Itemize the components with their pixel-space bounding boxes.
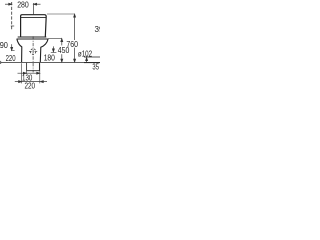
- dimension 280 left arrow: [5, 3, 12, 5]
- wall line cross tick: [11, 25, 14, 27]
- svg-text:180: 180: [44, 54, 56, 63]
- cistern lid line: [21, 17, 46, 19]
- dimension 450 line lower with down arrow: [61, 54, 63, 62]
- dimension 220 left upper arrow: [11, 44, 15, 50]
- bowl rim lower line: [17, 38, 48, 40]
- floor line end tick: [0, 61, 2, 64]
- dimension ø102 up arrow: [86, 58, 88, 63]
- dimension 280 left extension line (dashed wall line): [11, 2, 13, 29]
- 130 extension line left (outlet box corner): [26, 71, 28, 74]
- floor line: [1, 61, 101, 63]
- bowl right side: [40, 39, 48, 62]
- 450 reference line (bowl top extended): [48, 37, 62, 39]
- bowl left side: [17, 39, 22, 62]
- 130/220 extension line right: [39, 63, 41, 83]
- vertical centerline: [32, 36, 34, 72]
- dimension 220 bottom line with arrows: [15, 81, 47, 83]
- horizontal centerline of outlet hole: [29, 51, 37, 53]
- dimension 180 down arrow: [52, 46, 54, 52]
- bowl rim upper line: [18, 36, 47, 38]
- dimension 130 line with arrows: [18, 72, 40, 74]
- outlet box below floor: [27, 63, 40, 71]
- svg-text:280: 280: [17, 1, 29, 10]
- cistern outline: [21, 15, 47, 37]
- 220 extension line left (pedestal corner): [21, 63, 23, 83]
- svg-text:220: 220: [25, 82, 36, 91]
- dimension 280 right extension line: [33, 3, 35, 14]
- 760 reference line (cistern top extended): [47, 13, 75, 15]
- dimension 280 right arrow: [34, 3, 41, 5]
- 180 reference line: [51, 51, 57, 53]
- svg-text:39: 39: [95, 25, 101, 34]
- dimension 450 line upper with up arrow: [61, 39, 63, 46]
- svg-text:760: 760: [66, 40, 78, 49]
- outlet hole dashed circle: [30, 49, 35, 54]
- dimension 760 line upper with up arrow: [74, 14, 76, 40]
- outlet pipe top line: [84, 56, 100, 58]
- svg-text:220: 220: [6, 54, 16, 63]
- outlet pipe bottom line overlay: [84, 62, 100, 64]
- svg-text:35: 35: [92, 62, 99, 71]
- dimension 760 line lower with down arrow: [74, 48, 76, 63]
- svg-text:ø102: ø102: [78, 50, 93, 59]
- svg-text:90: 90: [0, 41, 8, 50]
